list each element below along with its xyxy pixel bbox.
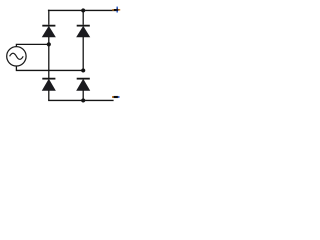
diode D2 (top-right, cathode up) xyxy=(77,25,90,37)
AC source sine wave xyxy=(10,53,24,59)
wire D1 anode to node A xyxy=(48,37,50,79)
wire left column upper (D1 cathode to + rail) xyxy=(48,10,50,25)
wire D2 anode to node B xyxy=(82,37,84,71)
wire right column upper (+ rail to D2) xyxy=(82,10,84,25)
AC source V1 circle xyxy=(7,47,26,66)
node A junction dot (AC top tap) xyxy=(47,42,51,46)
node - rail junction dot xyxy=(81,98,85,102)
wire AC source bottom terminal to node B (crosses left column, no connection) xyxy=(16,66,83,70)
label - (negative output terminal) xyxy=(112,96,120,98)
diode D1 (top-left, cathode up) xyxy=(42,25,55,37)
wire bottom rail (-) xyxy=(48,99,113,101)
node B junction dot (AC bottom tap) xyxy=(81,68,85,72)
diode D4 (bottom-right, cathode up) xyxy=(77,78,90,91)
wire D4 anode down to - rail xyxy=(82,90,84,100)
diode D3 (bottom-left, cathode up) xyxy=(42,78,55,91)
node + rail junction dot xyxy=(81,8,85,12)
wire top rail (+) xyxy=(48,9,118,11)
label + (positive output terminal) xyxy=(112,7,120,13)
wire AC source top terminal to node A xyxy=(16,44,48,46)
wire D3 anode down to - rail corner xyxy=(48,90,50,101)
